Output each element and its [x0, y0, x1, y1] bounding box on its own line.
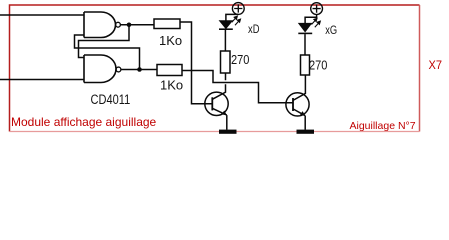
svg-text:1Ko: 1Ko [159, 33, 182, 48]
inverter bubble U1A [116, 22, 121, 27]
wire U1B output to R2 [121, 69, 157, 71]
transistor Q2 (NPN) [286, 93, 309, 130]
wire supply to LED xD [226, 14, 238, 20]
wire feedback Q to U1B input [79, 25, 130, 58]
supply symbol + (left, LED xD) [232, 3, 244, 15]
ground (Q2 emitter) [297, 130, 315, 134]
svg-text:Module affichage aiguillage: Module affichage aiguillage [11, 115, 157, 129]
svg-text:X7: X7 [429, 60, 442, 72]
transistor Q1 (NPN) [205, 92, 228, 130]
wire R2 to Q2 base [182, 71, 293, 103]
svg-text:270: 270 [309, 58, 328, 73]
wire input G (left entry, bottom) [0, 79, 84, 81]
LED xD arrows [232, 16, 241, 25]
inverter bubble U1B [116, 67, 121, 72]
resistor R3 270 (left) [221, 51, 231, 73]
border frame (red box) [10, 5, 420, 132]
nand gate U1A (CD4011, top) [84, 12, 116, 38]
resistor R2 1Ko (bottom) [157, 65, 182, 76]
resistor R1 1Ko (top) [154, 19, 180, 29]
resistor R4 270 (right) [301, 55, 310, 75]
ground (Q1 emitter) [219, 130, 237, 134]
nand gate U1B (CD4011, bottom) [84, 55, 116, 83]
svg-text:270: 270 [231, 52, 250, 67]
wire R1 to Q1 base [180, 22, 212, 104]
svg-text:xD: xD [248, 23, 260, 36]
wire R3 to Q1 collector (with crossover gap) [212, 73, 225, 99]
wire supply to LED xG [305, 15, 317, 24]
LED xG arrows [312, 18, 321, 27]
svg-text:xG: xG [325, 24, 337, 37]
wire U1A output to R1 [120, 24, 154, 26]
svg-text:CD4011: CD4011 [91, 92, 131, 108]
wire LED xD to R3 [224, 30, 226, 51]
Q1 emitter arrowhead [222, 111, 227, 116]
supply symbol + (right, LED xG) [311, 3, 323, 15]
LED xD (diode) [219, 21, 232, 29]
node Q (junction dot, U1A output) [127, 22, 132, 27]
wire LED xG to R4 [304, 34, 306, 55]
wire input D (left entry, top) [0, 14, 84, 16]
wire R4 to Q2 collector [293, 75, 305, 100]
LED xG (diode) [299, 23, 312, 32]
svg-text:Aiguillage N°7: Aiguillage N°7 [350, 120, 416, 132]
node Qbar (junction dot, U1B output) [137, 67, 142, 72]
Q2 emitter arrowhead [300, 111, 305, 116]
wire feedback Qbar to U1A input [75, 35, 140, 70]
svg-text:1Ko: 1Ko [160, 78, 183, 93]
